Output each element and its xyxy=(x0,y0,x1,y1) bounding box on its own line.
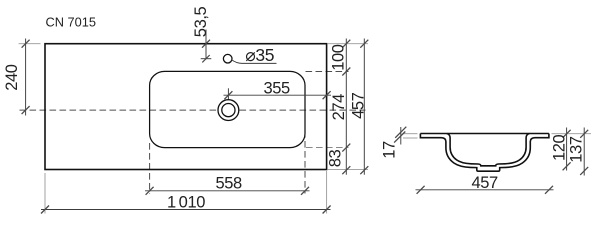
dimension 17 (rim thickness) xyxy=(403,133,418,135)
centerline (horizontal dashed through drain) xyxy=(20,109,366,111)
svg-text:53,5: 53,5 xyxy=(192,6,210,37)
svg-text:137: 137 xyxy=(568,136,586,163)
svg-text:83: 83 xyxy=(326,150,344,168)
dimension 558 line xyxy=(145,190,310,192)
svg-text:100: 100 xyxy=(329,44,347,71)
svg-text:⌀35: ⌀35 xyxy=(245,45,274,65)
ticks line B xyxy=(360,40,368,48)
basin section inner profile xyxy=(447,134,530,166)
dimension line B (457) xyxy=(363,39,365,175)
svg-text:120: 120 xyxy=(551,134,569,161)
dimension 53,5 xyxy=(205,30,207,59)
svg-text:355: 355 xyxy=(264,80,291,98)
dimension 457 (section width) xyxy=(416,189,554,191)
dimension 1010 line xyxy=(41,209,331,211)
basin section outer profile xyxy=(420,134,549,172)
svg-text:457: 457 xyxy=(472,174,499,192)
faucet centerline (dashed right of basin) xyxy=(306,71,349,73)
right dimension stack extension lines xyxy=(328,43,368,45)
leader line under diameter label xyxy=(232,60,277,64)
extension dashed line 274/83 boundary xyxy=(306,147,349,149)
dimension line A (100/274/83) xyxy=(345,39,347,175)
drain outer circle xyxy=(218,100,239,121)
right dashed extension for 558 xyxy=(304,131,306,194)
bottom extension lines xyxy=(44,173,46,214)
drain platform line xyxy=(481,165,496,167)
countertop outline (top view) xyxy=(45,44,327,170)
svg-text:1 010: 1 010 xyxy=(167,194,205,212)
extension line rim top right xyxy=(552,133,592,135)
dimension line C (120) xyxy=(566,128,568,171)
svg-text:240: 240 xyxy=(3,64,21,91)
left dashed extension for 558 xyxy=(149,143,151,194)
ticks line A xyxy=(342,40,350,48)
dimension line D (137) xyxy=(583,128,585,176)
svg-text:558: 558 xyxy=(216,174,243,192)
dimension 240 (left) xyxy=(19,43,41,45)
svg-text:17: 17 xyxy=(380,141,398,159)
drain inner circle xyxy=(222,104,235,117)
dimension 355 line xyxy=(227,88,229,101)
basin bowl rounded rectangle xyxy=(150,71,305,147)
svg-text:CN 7015: CN 7015 xyxy=(46,15,97,30)
faucet hole circle xyxy=(223,54,232,63)
svg-text:457: 457 xyxy=(350,92,368,119)
svg-text:274: 274 xyxy=(330,94,348,121)
basin section rim top line xyxy=(420,133,549,135)
